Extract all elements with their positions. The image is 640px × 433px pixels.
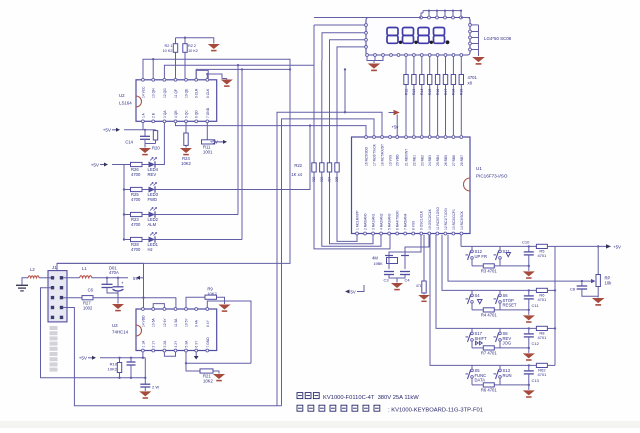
svg-text:R7 4701: R7 4701 [481,350,498,355]
resistor network R22 1K x4 [313,25,315,163]
resistor R25 4700 [131,187,143,191]
svg-text:10 5Y: 10 5Y [185,318,189,327]
ground key block [523,353,535,358]
svg-text:3 2A: 3 2A [163,340,167,348]
svg-text:RESET: RESET [503,302,517,307]
wire resistor to LED [142,214,149,216]
svg-text:4 QB: 4 QB [174,110,178,118]
resistor network 4701 x8 [405,56,407,74]
svg-text:12 QG: 12 QG [163,88,167,98]
svg-text:R2 1: R2 1 [164,44,172,48]
resistor R26 4700 [131,162,143,166]
svg-text:9 CLR: 9 CLR [195,88,199,98]
display right pins [469,24,472,27]
wire J1 to L1 [63,277,79,279]
svg-text:+5V: +5V [79,356,88,361]
svg-text:10 QE: 10 QE [185,88,189,98]
resistor R27 [82,296,93,300]
title line 2 [297,405,380,411]
ground key block [523,315,535,320]
svg-text:R6 4701: R6 4701 [481,387,498,392]
wire LED row feed [124,214,131,216]
wire net to U1 pin16 [277,112,382,406]
key switch S13 [499,365,501,369]
wire R27 right to U3 pin4 [93,298,176,308]
wire U1 pin10 to crystal [405,235,429,256]
svg-text:C6: C6 [88,288,94,293]
svg-text:1K x4: 1K x4 [291,172,302,177]
svg-text:DATA: DATA [475,377,486,382]
wire LED row3 vertical [237,65,239,214]
svg-text:2 B: 2 B [152,112,156,118]
power +5V LED rows [104,163,108,167]
U1 notch [464,178,471,191]
wire +5V to RP [597,246,599,274]
U2 bottom pins [142,120,145,123]
U3 top pins [142,308,145,311]
ground under crystal [391,283,403,288]
svg-text:11 RC0/T1OSO: 11 RC0/T1OSO [436,207,440,230]
resistor R62 [536,363,547,367]
svg-text:C14: C14 [125,140,133,145]
svg-text:R17: R17 [444,89,448,95]
svg-text:2 RA0/AN0: 2 RA0/AN0 [364,213,368,230]
svg-text:5V: 5V [351,290,356,295]
svg-text:1 MCLR/VPP: 1 MCLR/VPP [356,210,360,230]
wire LED row feed [124,239,131,241]
svg-text:21 RB0/INT: 21 RB0/INT [405,149,409,166]
resistor R23 4700 [131,212,143,216]
resistor R9 [205,295,217,299]
svg-text:12 RC1/T1OSI: 12 RC1/T1OSI [444,208,448,230]
svg-text:JOG: JOG [503,340,512,345]
power +5V to U2 pin1 area [116,128,120,132]
power +5V right of R11 [223,140,227,144]
wire key bottoms [472,309,483,311]
wire U1 pin9 to crystal [389,235,421,256]
ground right of R21 [213,374,225,379]
svg-text:R4 4701: R4 4701 [481,312,498,317]
J1 pin pair row 2 [51,286,54,289]
J1 pin pair row 5 [51,316,54,319]
wire U3 pin10 to R9 [186,297,205,307]
LED LED3 [149,187,156,193]
resistor R2-2 [184,52,186,78]
display top pins 1-6 [420,16,423,19]
svg-text:5 3A: 5 3A [185,340,189,348]
key switch S5 [471,365,473,369]
key switch S12 [471,246,473,250]
capacitor C13 [528,365,530,371]
hex inverter U3 74HC14 [136,309,217,351]
wire resistor to LED [142,189,149,191]
svg-text:18 RC7/RX/DT: 18 RC7/RX/DT [381,144,385,166]
wire net y263 [57,262,144,264]
svg-text:U3: U3 [112,323,118,328]
wire U1 pin11 to key row3 rail [436,235,455,329]
svg-text:5 RA3/AN3: 5 RA3/AN3 [388,213,392,230]
capacitor C16 [144,378,146,384]
power +5V key area [606,244,611,248]
ground under R24 [180,148,192,153]
svg-text:14 VDD: 14 VDD [141,315,145,327]
capacitor C12 [528,328,530,334]
wire display pin21 to digit line [314,17,421,19]
wire L2 left to earth [22,278,28,285]
display digit 8 #2 [403,28,414,36]
wire R21 to ground [213,371,219,374]
svg-text:KV1000-F0110C-4T 380V 25A 11k: KV1000-F0110C-4T 380V 25A 11kW [323,395,419,401]
wire J1 top to net [56,263,58,270]
wire J1 row3 to R27 [63,297,82,299]
wire display top right pin down to right bus [461,17,470,19]
svg-text:+5V: +5V [103,128,112,133]
resistor R5 [536,244,547,248]
key switch S17 [471,328,473,332]
title line 1 [297,393,319,399]
display digit 8 #3 [418,28,429,36]
U3 pin arrow down [195,352,197,356]
wire +5V to R10/C15 [100,357,145,359]
svg-text:19 VSS: 19 VSS [389,154,393,166]
decimal point dp3 [430,41,433,44]
display digit 8 #1 [387,28,398,36]
svg-text:4700: 4700 [131,172,141,177]
LED display module U4 [366,18,470,56]
svg-text:RUN: RUN [503,373,512,378]
wire digit select 1 [314,24,365,26]
svg-text:8 4Y: 8 4Y [206,319,210,327]
wire resistor to LED [142,164,149,166]
resistor R10 [119,358,121,363]
svg-text:PIC16F73-I/SO: PIC16F73-I/SO [476,174,508,179]
svg-text:R2 2: R2 2 [188,44,196,48]
ground right of R9 [218,305,230,310]
wire U3 pin1 down [142,352,144,358]
power +5v near crystal [345,290,350,294]
capacitor C10 [528,246,530,252]
svg-text:27 RB6: 27 RB6 [452,155,456,166]
svg-text:8 CLK: 8 CLK [206,88,210,98]
svg-text:471: 471 [416,284,422,288]
display left pins [365,24,368,27]
svg-text:10 K2: 10 K2 [163,49,173,53]
svg-text:+5V: +5V [613,245,621,250]
svg-text:C12: C12 [532,341,540,346]
svg-text:7 GND: 7 GND [206,107,210,118]
decimal point dp1 [399,41,402,44]
resistor R30 [422,281,426,293]
ground above U2 right [208,44,220,49]
svg-text:4700: 4700 [131,247,141,252]
capacitor C8 [581,281,583,286]
svg-text:10 K2: 10 K2 [188,49,198,53]
svg-text:4 RA2/AN2: 4 RA2/AN2 [380,213,384,230]
svg-text:R14: R14 [420,89,424,95]
U3 pins 2-3 top jumper [153,304,164,308]
wire U3 pin8 right-down [207,301,251,363]
power +5v to U1 VDD [389,112,394,114]
wire vertical x145 lower [144,358,146,378]
wire net to U1 pin17 [282,119,375,406]
wire key bottoms [472,265,483,267]
svg-text:LG4*50 SC08: LG4*50 SC08 [484,36,512,41]
svg-text:22 RB1: 22 RB1 [412,155,416,166]
svg-text:24 RB3: 24 RB3 [428,155,432,166]
wire L2 to J1 [39,277,51,279]
wire rail1 to +5V [555,245,606,247]
wire rail to +5V bus [547,364,555,366]
svg-text:4701: 4701 [468,75,478,80]
svg-text:4700: 4700 [131,197,141,202]
LED LED4 [149,162,156,168]
decimal point dp2 [414,41,417,44]
svg-text:R18: R18 [452,89,456,95]
svg-text:R19: R19 [460,89,464,95]
wire net U2 pins1-2 to J1 [57,59,290,270]
resistor R20 [155,129,157,132]
wire LED row feed [124,189,131,191]
J1 vertical gray caption [50,326,58,330]
U3 bottom pins [142,349,145,352]
key row rail y290.4 [455,289,536,291]
wire resistor to LED [142,239,149,241]
wire long bus y363 [186,362,251,364]
svg-text:+5V: +5V [91,162,100,167]
wire U2 pin7 to ground [207,74,222,79]
svg-text:1001: 1001 [203,150,213,155]
capacitor C11 [528,290,530,296]
wire key bottoms [472,347,483,349]
J1 pin pair row 1 [51,276,54,279]
svg-text:28 RB7: 28 RB7 [460,155,464,166]
key row rail y365.4 [455,364,536,366]
svg-text:23 RB2: 23 RB2 [420,155,424,166]
connector J1 [48,271,67,322]
capacitor C7 electrolytic [117,278,119,287]
wire C7 to ground [117,291,119,304]
svg-text:2 1Y: 2 1Y [152,340,156,348]
svg-text:4700: 4700 [131,222,141,227]
svg-text:6 3Y: 6 3Y [195,340,199,348]
wire U1 pin13 to RP wiper [448,235,594,281]
wire digit select 4 [337,47,365,60]
svg-text:LS164: LS164 [119,101,132,106]
resistor R2-1 [175,52,177,78]
wire L1 to +5V node [92,277,128,279]
svg-text:7 RA5/AN4: 7 RA5/AN4 [404,213,408,230]
svg-text:REV: REV [148,172,157,177]
svg-text:6 RA4/T0CKI: 6 RA4/T0CKI [396,210,400,230]
key switch S11 [499,246,501,250]
resistor R28 4700 [131,237,143,241]
key row rail y246.4 [461,245,536,247]
svg-text:6 QD: 6 QD [195,110,199,118]
wire display bottom gnd loop [367,56,383,60]
wire LED row feed [124,164,131,166]
svg-text:10K2: 10K2 [181,161,191,166]
ground key block [523,271,535,276]
svg-text:16 RC5/SDO: 16 RC5/SDO [365,146,369,166]
resistor R6 [483,383,494,387]
key switch S4 [471,290,473,294]
svg-text:R16: R16 [436,89,440,95]
wire LED1 row4 to right [156,239,243,241]
wire net DATA U2 to display/R22 [164,65,314,121]
resistor R11 [206,122,208,141]
svg-text:4M: 4M [372,256,378,261]
LED LED2 [149,212,156,218]
svg-text:14 VCC: 14 VCC [141,86,145,98]
ground under C14/R20 [144,144,146,148]
svg-text:FWD: FWD [148,197,158,202]
svg-text:4 2Y: 4 2Y [174,340,178,348]
wire U1 pin14 to key row1 rail [460,235,462,247]
power +5V after L1 [136,276,140,280]
ground under R30 [418,295,430,300]
svg-text:7 GND: 7 GND [206,337,210,348]
U1 top pins [365,136,368,139]
svg-text:17 RC6/TX/CK: 17 RC6/TX/CK [373,143,377,166]
svg-text:3 RA1/AN1: 3 RA1/AN1 [372,213,376,230]
svg-text:L2: L2 [30,267,35,272]
svg-text:SHIFT: SHIFT [475,336,488,341]
svg-text:C8: C8 [570,287,576,292]
wire U1 pin12 to key row2 rail [442,235,455,291]
svg-text:13 RC2/CCP1: 13 RC2/CCP1 [452,209,456,230]
svg-text:10K2: 10K2 [207,291,217,296]
svg-text:4701: 4701 [537,297,547,302]
wire LED4 row1 to U2 pin3 [156,123,165,165]
svg-text:R3 4701: R3 4701 [481,268,498,273]
display digit 8 #4 [434,28,445,36]
svg-text:4701: 4701 [537,335,547,340]
ground under RP [592,298,605,303]
ground under C6/C7 [112,304,124,309]
U3 pins 3-4 bottom jumper [164,352,175,356]
potentiometer RP [596,275,600,287]
resistor R21 [200,369,213,373]
svg-text:4701: 4701 [537,372,547,377]
svg-text:R20: R20 [152,146,160,151]
svg-text:14 RC3/SCK: 14 RC3/SCK [460,210,464,230]
wire display right pins bus [471,24,478,26]
svg-text:2 W: 2 W [152,385,159,390]
wire rail to +5V bus [547,327,555,329]
+5V bus right [554,246,556,365]
svg-text:U1: U1 [476,166,482,171]
resistor R7 [483,346,494,350]
wire net U2 pin4 to U1 pin18 [176,121,367,135]
resistor R8 [536,326,547,330]
ground key block [523,390,535,395]
svg-text:12 6Y: 12 6Y [163,318,167,327]
wire digit select 2 [322,33,365,60]
decimal point dp4 [446,40,450,44]
capacitor C6 [106,278,108,285]
wire R30 to ground [423,293,425,295]
wire key bottoms [472,384,483,386]
svg-text:10K2: 10K2 [203,379,213,384]
svg-text:74HC14: 74HC14 [112,330,129,335]
shift register U2 LS164 [136,80,217,122]
ground display right [472,57,485,62]
J1 pin pair row 3 [51,296,54,299]
svg-text:26 RB5: 26 RB5 [444,155,448,166]
key switch S6 [499,290,501,294]
wire LED row4 vertical [241,69,243,239]
svg-text:11 5A: 11 5A [174,318,178,327]
svg-text:x8: x8 [468,81,473,86]
svg-text:L1: L1 [82,266,87,271]
svg-text:C3: C3 [383,278,389,283]
wire U1 pin1 loop [356,235,358,242]
wire rail to +5V bus [547,245,555,247]
wire R9 to ground [217,297,225,304]
svg-text:11 QF: 11 QF [174,89,178,98]
svg-text:R13: R13 [412,89,416,95]
U2 notch [136,96,142,107]
ground under C16 [139,391,151,396]
svg-text:Hz: Hz [148,247,153,252]
U3 notch [136,325,142,336]
svg-text:10 OSC2/CLK: 10 OSC2/CLK [428,208,432,230]
svg-text:1002: 1002 [83,306,93,311]
resistor R3 [483,264,494,268]
resistor R4 [483,308,494,312]
wire R2 tops to ground [176,38,214,44]
svg-text:R22: R22 [294,163,302,168]
key row rail y328.4 [455,327,536,329]
LED LED1 [149,237,156,243]
wire C3/C4 common [389,275,405,279]
svg-text:1 A: 1 A [141,112,145,118]
wire R22 outputs to U1 [314,172,390,249]
svg-text:9 OSC1/CLK: 9 OSC1/CLK [420,210,424,230]
svg-text:3 QA: 3 QA [163,110,167,118]
wire LED2 row3 to right [156,214,239,216]
svg-text:8 VSS: 8 VSS [412,220,416,230]
wire J1 row4 right to bottom rail [63,308,281,406]
svg-text:13 QH: 13 QH [152,88,156,98]
svg-text:: KV1000-KEYBOARD-11G-3TP-F01: : KV1000-KEYBOARD-11G-3TP-F01 [388,408,483,414]
wire rail to +5V bus [547,289,555,291]
ground display bottom-left [368,64,381,69]
svg-text:C10: C10 [522,239,530,244]
microcontroller U1 PIC16F73 [352,137,471,234]
resistor R6 [536,288,547,292]
capacitor C14 [144,130,146,137]
svg-text:19BK: 19BK [373,262,383,266]
svg-text:C11: C11 [532,303,540,308]
wire U1 pin8 down [423,235,425,281]
wire U1 pin to key row4 rail [430,235,455,366]
wire LED3 row2 to right [156,126,311,190]
svg-text:25 RB4: 25 RB4 [436,155,440,166]
svg-text:ALM: ALM [148,222,157,227]
svg-text:470A: 470A [109,270,119,275]
U1 bottom pins [356,232,359,235]
display bottom pins [366,54,369,57]
capacitor C3 [384,271,394,273]
capacitor C15 [130,358,132,362]
svg-text:C13: C13 [532,378,540,383]
svg-text:+5V: +5V [210,140,219,145]
wire RP bottom [597,287,599,298]
svg-text:UP FR: UP FR [475,254,488,259]
svg-text:20 VDD: 20 VDD [396,154,400,166]
resistor R24 [185,122,187,133]
